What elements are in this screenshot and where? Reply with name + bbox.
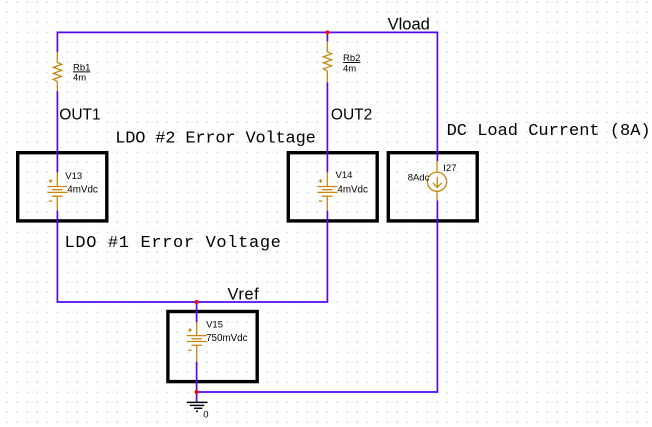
svg-text:LDO #1 Error Voltage: LDO #1 Error Voltage <box>65 234 282 253</box>
box load around I27 <box>388 153 477 221</box>
svg-text:OUT2: OUT2 <box>331 106 372 123</box>
junction dot at Vref tee <box>195 300 199 304</box>
box around V15 <box>168 312 257 382</box>
svg-text:DC Load Current (8A): DC Load Current (8A) <box>447 122 651 141</box>
svg-text:4mVdc: 4mVdc <box>337 184 368 195</box>
resistor Rb1 <box>53 52 61 91</box>
svg-text:8Adc: 8Adc <box>408 172 430 183</box>
resistor Rb2 <box>323 41 331 82</box>
wire middle vertical upper stub <box>326 32 328 41</box>
ground symbol 0 <box>187 402 208 411</box>
box LDO1 around V13 <box>18 153 107 221</box>
junction dot at ground tee <box>195 390 199 394</box>
wire V15 bottom vertical <box>196 362 198 392</box>
wire V15 top vertical <box>196 302 198 322</box>
svg-text:Vload: Vload <box>388 16 430 34</box>
box LDO2 around V14 <box>288 153 377 221</box>
svg-text:Vref: Vref <box>228 285 260 303</box>
wire middle vertical below V14 <box>326 211 328 302</box>
current source I27 <box>427 161 446 201</box>
voltage source V14 <box>317 172 337 210</box>
svg-text:0: 0 <box>203 410 208 421</box>
wire ground stub <box>196 392 198 402</box>
svg-text:4m: 4m <box>73 72 86 83</box>
svg-text:I27: I27 <box>443 163 456 174</box>
wire left vertical upper segment <box>56 32 58 53</box>
wire bottom horizontal <box>196 391 438 393</box>
wire middle vertical OUT2 segment <box>326 82 328 172</box>
svg-text:4m: 4m <box>343 63 356 74</box>
wire right vertical upper segment <box>436 32 438 161</box>
voltage source V15 <box>187 322 207 362</box>
svg-text:V15: V15 <box>206 319 223 330</box>
svg-text:V13: V13 <box>65 171 82 182</box>
wire right vertical below I27 <box>436 201 438 393</box>
svg-text:LDO #2 Error Voltage: LDO #2 Error Voltage <box>115 129 315 148</box>
svg-text:V14: V14 <box>336 170 353 181</box>
svg-text:OUT1: OUT1 <box>59 106 100 123</box>
svg-text:750mVdc: 750mVdc <box>206 333 247 344</box>
wire left vertical below V13 <box>56 211 58 303</box>
svg-text:4mVdc: 4mVdc <box>67 184 98 195</box>
wire top horizontal Vload net <box>57 31 439 33</box>
wire Vref horizontal <box>57 301 329 303</box>
junction dot at Vload tee <box>325 30 329 34</box>
voltage source V13 <box>47 172 67 210</box>
wire left vertical OUT1 segment <box>56 91 58 172</box>
